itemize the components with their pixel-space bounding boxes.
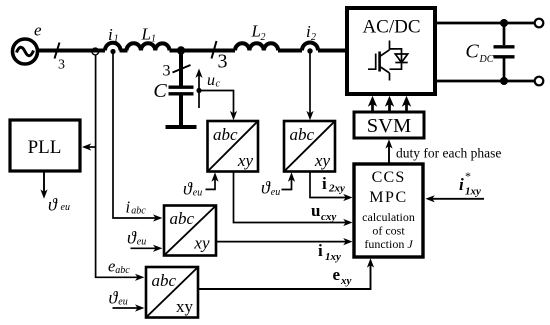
svg-text:CCS: CCS bbox=[372, 169, 406, 186]
svg-text:i: i bbox=[108, 25, 113, 44]
svg-text:abc: abc bbox=[152, 271, 177, 290]
svg-text:xy: xy bbox=[237, 151, 254, 170]
svg-text:1: 1 bbox=[114, 34, 119, 45]
svg-text:C: C bbox=[465, 41, 479, 63]
svg-text:xy: xy bbox=[314, 151, 331, 170]
svg-text:L: L bbox=[251, 22, 261, 41]
svg-text:i: i bbox=[322, 174, 327, 193]
svg-text:ϑ: ϑ bbox=[261, 178, 271, 198]
svg-text:1xy: 1xy bbox=[325, 251, 341, 263]
svg-text:3: 3 bbox=[163, 63, 171, 80]
svg-text:xy: xy bbox=[340, 275, 352, 287]
svg-text:L: L bbox=[141, 25, 151, 44]
svg-text:eu: eu bbox=[137, 237, 146, 248]
svg-text:ϑ: ϑ bbox=[48, 195, 58, 215]
svg-text:3: 3 bbox=[218, 51, 228, 73]
svg-text:abc: abc bbox=[115, 265, 130, 276]
svg-text:3: 3 bbox=[58, 58, 65, 73]
svg-text:function J: function J bbox=[364, 237, 413, 251]
svg-text:abc: abc bbox=[131, 206, 146, 217]
svg-text:2: 2 bbox=[261, 32, 266, 43]
svg-text:i: i bbox=[126, 197, 131, 216]
svg-text:*: * bbox=[465, 169, 471, 183]
svg-text:calculation: calculation bbox=[362, 210, 415, 224]
svg-text:eu: eu bbox=[61, 202, 70, 213]
svg-text:e: e bbox=[108, 257, 115, 276]
svg-text:e: e bbox=[34, 21, 42, 40]
svg-text:u: u bbox=[207, 72, 215, 89]
svg-text:of cost: of cost bbox=[372, 224, 405, 238]
svg-text:ϑ: ϑ bbox=[109, 288, 119, 308]
svg-text:C: C bbox=[153, 80, 167, 102]
svg-text:eu: eu bbox=[118, 297, 127, 308]
svg-text:e: e bbox=[333, 265, 341, 284]
svg-text:abc: abc bbox=[170, 209, 195, 228]
svg-text:xy: xy bbox=[193, 234, 210, 253]
svg-text:eu: eu bbox=[193, 188, 202, 199]
svg-text:duty for each phase: duty for each phase bbox=[396, 146, 501, 161]
svg-text:i: i bbox=[318, 241, 323, 260]
svg-text:PLL: PLL bbox=[28, 137, 62, 158]
svg-text:SVM: SVM bbox=[367, 115, 411, 137]
svg-text:abc: abc bbox=[213, 125, 238, 144]
svg-text:2: 2 bbox=[311, 32, 316, 43]
svg-text:MPC: MPC bbox=[369, 189, 408, 206]
svg-text:DC: DC bbox=[479, 54, 494, 65]
svg-text:c: c bbox=[216, 79, 221, 90]
svg-text:1xy: 1xy bbox=[465, 186, 481, 198]
svg-text:ϑ: ϑ bbox=[127, 228, 137, 248]
svg-text:2xy: 2xy bbox=[328, 183, 345, 195]
svg-text:ϑ: ϑ bbox=[183, 179, 193, 199]
svg-text:i: i bbox=[459, 175, 464, 194]
svg-text:AC/DC: AC/DC bbox=[362, 17, 420, 38]
svg-text:u: u bbox=[311, 201, 320, 220]
svg-text:1: 1 bbox=[151, 34, 156, 45]
svg-text:xy: xy bbox=[176, 297, 194, 316]
svg-text:cxy: cxy bbox=[321, 211, 336, 223]
svg-text:abc: abc bbox=[290, 125, 315, 144]
svg-text:eu: eu bbox=[271, 187, 280, 198]
